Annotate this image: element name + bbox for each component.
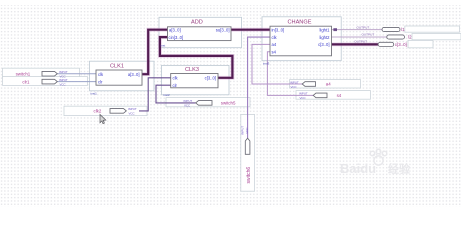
junction dot at CHANGE.light1 [333,28,337,31]
pin bounding box switch6 vertical [241,115,255,192]
svg-text:clk: clk [98,72,104,77]
svg-text:OUTPUT: OUTPUT [362,33,375,37]
bus wire CLK3.c to ADD.b [160,37,233,78]
svg-text:c[3..0]: c[3..0] [318,42,329,47]
pin bounding box s4 [296,91,371,100]
wire net s4 pin to CHANGE.s4 [267,52,313,96]
svg-text:VCC: VCC [245,127,249,134]
svg-text:in[3..0]: in[3..0] [272,27,285,32]
svg-text:switch6: switch6 [246,167,252,184]
svg-text:c[3..0]: c[3..0] [395,42,407,47]
svg-text:inst2: inst2 [163,93,170,97]
svg-text:clk: clk [173,76,179,81]
input pin switch5 (mirrored) [184,99,236,108]
svg-text:VCC: VCC [184,104,190,108]
svg-text:OUTPUT: OUTPUT [357,25,370,29]
svg-text:clr: clr [173,83,178,88]
svg-text:clk2: clk2 [94,109,102,114]
svg-text:c[3..0]: c[3..0] [205,76,216,81]
svg-text:OUTPUT: OUTPUT [354,40,367,44]
wire net switch6 to CHANGE.clk [248,37,270,138]
input pin clk2 [94,107,137,116]
svg-text:s4: s4 [337,93,342,98]
svg-text:ADD: ADD [191,20,203,26]
wire net switch1 to CLK1.clk [58,73,97,75]
bus wire CHANGE.c to output pin c[3..0] [332,43,379,47]
output pin l2 [362,33,413,40]
symbol bounding box CLK1 [90,61,155,91]
svg-text:INPUT: INPUT [299,92,308,96]
svg-text:clk: clk [272,35,278,40]
output pin c[3..0] [354,40,406,47]
pin bounding box switch5 [166,98,250,107]
wire net clr1 to CLK1.clr [58,81,97,83]
wire net CHANGE.light2 to output pin l2 [332,36,387,38]
symbol bounding box CHANGE [262,17,341,61]
block ADD [161,20,232,48]
input pin switch1 [16,70,68,79]
svg-text:cin[3..0]: cin[3..0] [169,35,184,40]
svg-text:switch1: switch1 [16,71,31,76]
svg-text:clr: clr [98,79,103,84]
wire net a4 pin to CHANGE.a4 [252,44,302,84]
svg-text:INPUT: INPUT [184,99,193,103]
svg-text:CHANGE: CHANGE [288,19,312,25]
input pin a4 (mirrored) [290,80,331,89]
svg-text:a4: a4 [272,42,277,47]
svg-text:CLK1: CLK1 [110,64,124,70]
wire net switch5 to CLK3.clr [156,85,196,103]
svg-text:VCC: VCC [60,82,66,86]
watermark Baidu Jingyan logo [340,149,411,176]
wire net clk2 to CLK3.clk [139,78,171,111]
svg-text:经验: 经验 [388,162,411,176]
svg-text:a[3..0]: a[3..0] [169,27,181,32]
svg-text:inst3: inst3 [263,61,270,65]
svg-text:CLK3: CLK3 [185,67,199,73]
svg-text:INPUT: INPUT [128,107,137,111]
svg-text:inst1: inst1 [91,91,98,95]
wire net CHANGE.light1 to output pin l1 [332,29,383,31]
svg-text:INPUT: INPUT [59,70,68,74]
svg-text:l1: l1 [401,27,405,32]
input pin clr1 [22,78,68,87]
input pin switch6 (vertical, pointing up) [241,126,252,184]
svg-text:s4: s4 [272,50,277,55]
svg-text:su[3..0]: su[3..0] [216,27,230,32]
bus wire CLK1.a to ADD.a [142,30,168,74]
pin bounding box clr1 [3,77,88,86]
pin bounding box switch1 [3,68,80,77]
svg-text:VCC: VCC [300,96,306,100]
svg-text:INPUT: INPUT [59,78,68,82]
pin name box l2 [412,34,461,40]
svg-text:clr1: clr1 [22,79,30,84]
block CLK3 [163,67,218,97]
svg-text:Baidu: Baidu [340,161,376,176]
symbol bounding box ADD [159,17,242,47]
svg-text:l2: l2 [408,35,412,40]
svg-text:light1: light1 [319,27,330,32]
svg-text:light2: light2 [319,35,330,40]
bus wire ADD.su to CHANGE.in [231,28,270,32]
input pin s4 (mirrored) [299,92,342,101]
pin name box c[3..0] [408,40,433,47]
svg-text:VCC: VCC [291,85,297,89]
svg-text:a[3..0]: a[3..0] [128,72,140,77]
svg-text:VCC: VCC [129,112,135,116]
svg-text:a4: a4 [326,82,331,87]
mouse cursor [100,115,106,124]
block CHANGE [263,19,332,65]
block CLK1 [91,64,143,96]
svg-text:INPUT: INPUT [290,80,299,84]
svg-text:inst: inst [161,44,166,48]
pin bounding box a4 [290,80,361,88]
symbol bounding box CLK3 [162,65,230,94]
pin bounding box clk2 [64,106,147,115]
pin name box l1 [405,26,460,32]
output pin l1 [357,25,406,32]
svg-text:switch5: switch5 [221,101,236,106]
